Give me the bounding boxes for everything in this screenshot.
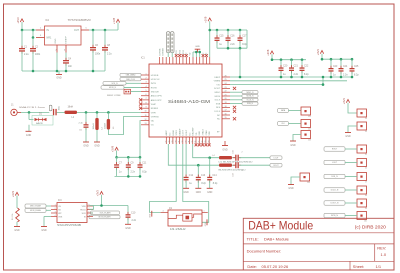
svg-text:C17: C17 [242, 36, 247, 38]
svg-text:DAADP: DAADP [178, 128, 181, 136]
svg-text:35: 35 [192, 141, 194, 143]
svg-text:39: 39 [205, 141, 207, 143]
svg-text:19.2MHz: 19.2MHz [170, 227, 187, 231]
svg-text:DCLK: DCLK [214, 111, 220, 113]
svg-text:GND: GND [14, 230, 19, 232]
svg-text:SSC25VP064B: SSC25VP064B [57, 224, 82, 227]
svg-text:LOUT: LOUT [183, 129, 185, 135]
svg-text:(c) DIRB 2020: (c) DIRB 2020 [355, 225, 387, 230]
svg-text:2.2n: 2.2n [131, 171, 136, 173]
svg-text:GND: GND [94, 146, 99, 148]
svg-text:AMLDOPP: AMLDOPP [151, 99, 162, 102]
svg-text:C13: C13 [201, 175, 206, 177]
svg-text:IC1: IC1 [141, 57, 145, 60]
svg-text:3: 3 [145, 82, 146, 84]
svg-text:GND: GND [290, 145, 295, 147]
svg-text:MOSI_FLASH: MOSI_FLASH [99, 216, 111, 219]
svg-text:8: 8 [145, 102, 146, 104]
svg-text:SSB: SSB [216, 103, 221, 105]
svg-text:C20: C20 [283, 66, 288, 68]
svg-text:+3V3: +3V3 [16, 17, 20, 24]
svg-text:R1 10k: R1 10k [12, 214, 14, 220]
svg-text:ROUT: ROUT [186, 129, 188, 135]
svg-text:GND: GND [184, 192, 189, 194]
svg-text:36: 36 [195, 141, 197, 143]
svg-text:GND: GND [288, 188, 293, 190]
svg-text:05.07.20 19:26: 05.07.20 19:26 [262, 264, 289, 269]
svg-text:VDD: VDD [82, 206, 87, 208]
svg-text:RFND: RFND [173, 129, 175, 135]
svg-text:1: 1 [55, 204, 56, 206]
svg-text:C21: C21 [294, 66, 299, 68]
svg-text:GND: GND [150, 213, 152, 218]
svg-text:NC: NC [217, 115, 221, 117]
svg-text:8.2p: 8.2p [213, 183, 218, 185]
svg-text:38: 38 [202, 141, 204, 143]
svg-text:J11: J11 [308, 116, 311, 118]
svg-text:J3: J3 [365, 118, 367, 120]
svg-text:SCK_FLASH: SCK_FLASH [100, 211, 111, 214]
svg-text:Date:: Date: [247, 264, 257, 269]
svg-text:DFS: DFS [216, 107, 221, 109]
svg-text:VIO: VIO [216, 84, 220, 86]
svg-text:GND: GND [207, 192, 212, 194]
svg-text:2.2n: 2.2n [343, 75, 348, 77]
svg-text:100n: 100n [95, 54, 101, 56]
svg-text:SMA-PCB 1.1mm: SMA-PCB 1.1mm [19, 106, 45, 109]
svg-text:2: 2 [55, 208, 56, 210]
svg-text:VMEM: VMEM [214, 81, 221, 83]
svg-text:REV:: REV: [377, 246, 386, 251]
svg-text:15: 15 [225, 117, 227, 119]
svg-text:STKO: STKO [176, 130, 178, 136]
svg-text:2.2n: 2.2n [132, 220, 137, 222]
svg-text:J4: J4 [365, 131, 367, 133]
svg-text:+3V8: +3V8 [266, 49, 270, 56]
svg-text:SCLK_N: SCLK_N [247, 99, 255, 101]
svg-text:SCK_N: SCK_N [112, 83, 119, 85]
svg-text:NC: NC [217, 119, 221, 121]
svg-text:100n: 100n [35, 54, 41, 56]
svg-text:XTALO: XTALO [202, 129, 205, 136]
svg-text:19: 19 [225, 102, 227, 104]
svg-text:XTALI: XTALI [205, 130, 208, 136]
svg-text:DBFP: DBFP [214, 77, 220, 79]
svg-text:MISO_N: MISO_N [247, 92, 255, 94]
svg-text:20: 20 [225, 98, 227, 100]
svg-text:HVSDB: HVSDB [151, 75, 159, 77]
svg-text:23: 23 [225, 87, 227, 89]
svg-text:TITLE:: TITLE: [247, 237, 259, 242]
svg-text:DCLK_N: DCLK_N [331, 190, 339, 192]
svg-text:HVSCLK: HVSCLK [151, 79, 160, 81]
svg-text:J13: J13 [308, 140, 311, 142]
svg-text:C19: C19 [233, 173, 235, 176]
svg-text:MOSI_FLASH: MOSI_FLASH [30, 209, 41, 212]
svg-text:MISO: MISO [215, 92, 221, 94]
svg-text:DBB_CLK0: DBB_CLK0 [126, 79, 135, 81]
svg-text:GND: GND [56, 78, 61, 80]
svg-text:27: 27 [166, 141, 168, 143]
svg-text:25: 25 [225, 79, 227, 81]
svg-text:C12: C12 [189, 175, 194, 177]
svg-text:SMODE: SMODE [151, 92, 160, 94]
svg-text:6: 6 [145, 94, 146, 96]
svg-text:DFS_N: DFS_N [331, 176, 338, 178]
svg-text:HOLD: HOLD [80, 209, 86, 211]
svg-text:J5: J5 [365, 154, 367, 156]
svg-text:GND: GND [83, 146, 88, 148]
svg-text:+3V3: +3V3 [342, 98, 346, 105]
svg-text:GND: GND [196, 192, 201, 194]
svg-text:12: 12 [144, 119, 146, 121]
svg-text:16: 16 [225, 113, 227, 115]
svg-text:C14: C14 [212, 175, 217, 177]
svg-text:17: 17 [225, 110, 227, 112]
svg-text:ROUT: ROUT [332, 149, 338, 151]
svg-text:5: 5 [145, 90, 146, 92]
svg-text:100nH: 100nH [93, 123, 95, 130]
svg-text:GND: GND [55, 38, 57, 43]
svg-text:+3V3: +3V3 [95, 190, 99, 197]
svg-text:13: 13 [144, 123, 146, 125]
svg-text:DOUT: DOUT [214, 88, 221, 90]
svg-text:INTB_N: INTB_N [331, 215, 338, 217]
svg-text:VD: VD [151, 125, 154, 127]
svg-text:VHFI: VHFI [151, 112, 156, 114]
svg-text:ABFP: ABFP [165, 130, 168, 136]
svg-text:29: 29 [172, 141, 174, 143]
svg-text:1: 1 [204, 210, 205, 212]
svg-text:2.2u: 2.2u [24, 54, 29, 56]
svg-text:34: 34 [189, 141, 191, 143]
svg-text:C23: C23 [333, 66, 338, 68]
svg-text:GND: GND [26, 135, 31, 137]
svg-text:4: 4 [55, 215, 56, 217]
svg-text:INTB: INTB [151, 83, 157, 85]
svg-text:GND: GND [345, 136, 350, 138]
svg-text:31: 31 [179, 141, 181, 143]
svg-text:1.0: 1.0 [381, 252, 387, 257]
svg-text:SCK: SCK [82, 213, 87, 215]
svg-text:Si4684-A10-GM: Si4684-A10-GM [168, 99, 210, 104]
svg-text:40: 40 [208, 141, 210, 143]
svg-text:J7: J7 [365, 182, 367, 184]
svg-text:DAB+ Module: DAB+ Module [264, 237, 290, 242]
svg-text:2.2n: 2.2n [294, 74, 299, 76]
svg-text:SSB_N: SSB_N [247, 103, 254, 105]
svg-text:8.2p: 8.2p [354, 75, 359, 77]
svg-text:4: 4 [145, 86, 146, 88]
svg-text:WHP: WHP [151, 104, 157, 106]
svg-text:C16: C16 [230, 36, 235, 38]
svg-text:+3V3: +3V3 [11, 190, 15, 197]
svg-text:33: 33 [185, 141, 187, 143]
svg-text:GND: GND [199, 131, 201, 136]
svg-text:TPS79318DBVR: TPS79318DBVR [68, 19, 91, 22]
svg-text:26: 26 [225, 75, 227, 77]
svg-text:C15: C15 [219, 36, 224, 38]
svg-text:J8: J8 [365, 195, 367, 197]
svg-text:EN/BYP: EN/BYP [66, 35, 68, 43]
svg-text:18: 18 [225, 106, 227, 108]
svg-text:NR1: NR1 [47, 37, 52, 40]
svg-text:28: 28 [169, 141, 171, 143]
svg-text:1/1: 1/1 [376, 264, 382, 269]
svg-text:+1V8: +1V8 [204, 16, 208, 23]
svg-text:C18: C18 [233, 150, 235, 153]
svg-text:SO: SO [58, 209, 61, 211]
svg-text:LOUT: LOUT [332, 162, 338, 164]
svg-text:Document Number:: Document Number: [247, 248, 282, 253]
svg-text:+1V8: +1V8 [112, 17, 116, 24]
svg-text:OUT: OUT [74, 29, 80, 32]
svg-text:100nH: 100nH [105, 122, 107, 129]
svg-text:21: 21 [225, 94, 227, 96]
svg-text:IC2: IC2 [45, 19, 49, 22]
svg-text:2.2n: 2.2n [230, 44, 235, 46]
svg-text:GND: GND [125, 228, 130, 230]
svg-text:7: 7 [89, 208, 90, 210]
svg-text:22: 22 [225, 91, 227, 93]
svg-text:2: 2 [145, 77, 146, 79]
svg-text:C24: C24 [343, 66, 348, 68]
svg-text:+3V8: +3V8 [110, 145, 114, 152]
svg-text:J10: J10 [364, 221, 367, 223]
svg-text:AMLDOPN: AMLDOPN [151, 95, 162, 98]
svg-text:C25: C25 [354, 66, 359, 68]
svg-text:DACREF: DACREF [192, 126, 195, 135]
svg-text:DBB_DATA0: DBB_DATA0 [126, 74, 136, 77]
svg-text:8: 8 [89, 204, 90, 206]
svg-text:8.2p: 8.2p [201, 183, 206, 185]
svg-text:9: 9 [145, 107, 146, 109]
svg-text:NVSSB: NVSSB [159, 48, 161, 55]
svg-text:J9: J9 [365, 208, 367, 210]
svg-text:DAB+ Module: DAB+ Module [248, 219, 313, 233]
svg-text:MOSI_N: MOSI_N [247, 96, 255, 98]
svg-text:8.2p: 8.2p [142, 171, 147, 173]
svg-text:24: 24 [225, 83, 227, 85]
svg-text:VHFSW: VHFSW [151, 116, 160, 118]
svg-text:10: 10 [144, 111, 146, 113]
svg-text:GND: GND [222, 149, 227, 151]
svg-text:32: 32 [182, 141, 184, 143]
svg-text:SMD02 1.27MM: SMD02 1.27MM [107, 95, 121, 97]
svg-text:GND: GND [205, 222, 207, 227]
svg-text:DOUT_N: DOUT_N [331, 203, 339, 205]
svg-text:Sheet:: Sheet: [353, 264, 365, 269]
svg-text:6: 6 [89, 211, 90, 213]
svg-text:GND: GND [195, 46, 200, 48]
svg-text:NVMEM: NVMEM [163, 48, 165, 56]
svg-text:VDD: VDD [209, 131, 211, 136]
svg-text:J6: J6 [365, 168, 367, 170]
svg-text:3: 3 [55, 211, 56, 213]
svg-text:MISO_FLASH: MISO_FLASH [30, 205, 41, 208]
svg-text:C10: C10 [131, 212, 136, 214]
svg-text:IN: IN [47, 29, 50, 32]
svg-text:RFREF: RFREF [151, 108, 159, 110]
svg-text:C22: C22 [304, 66, 309, 68]
svg-text:37: 37 [199, 141, 201, 143]
svg-text:+3V3: +3V3 [316, 49, 320, 56]
svg-text:30: 30 [175, 141, 177, 143]
svg-text:1: 1 [145, 73, 146, 75]
svg-text:VSS: VSS [58, 216, 63, 218]
svg-text:RSTB: RSTB [151, 87, 157, 89]
svg-text:4: 4 [163, 210, 164, 212]
svg-text:7: 7 [145, 98, 146, 100]
svg-text:18nH: 18nH [68, 107, 74, 109]
svg-text:11: 11 [145, 115, 147, 117]
svg-text:MOSI: MOSI [215, 96, 221, 98]
svg-text:1: 1 [242, 170, 243, 172]
svg-text:8.2p: 8.2p [304, 74, 309, 76]
svg-text:2: 2 [242, 151, 243, 153]
svg-text:GND: GND [41, 230, 46, 232]
svg-text:J14: J14 [307, 182, 310, 184]
svg-text:MOSI_N: MOSI_N [109, 87, 117, 89]
svg-text:2.2u: 2.2u [107, 54, 112, 56]
svg-text:BAV99: BAV99 [36, 122, 43, 125]
svg-text:SCLK: SCLK [214, 100, 220, 102]
